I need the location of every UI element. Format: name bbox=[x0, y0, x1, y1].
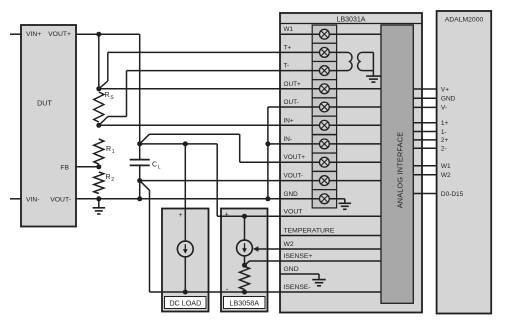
svg-text:T+: T+ bbox=[284, 44, 292, 51]
svg-text:+: + bbox=[224, 211, 228, 218]
svg-text:T-: T- bbox=[284, 63, 290, 70]
svg-text:DC LOAD: DC LOAD bbox=[169, 299, 201, 308]
svg-text:LB3031A: LB3031A bbox=[337, 16, 366, 23]
svg-text:C: C bbox=[152, 162, 157, 169]
svg-text:V+: V+ bbox=[441, 86, 449, 93]
svg-text:LB3058A: LB3058A bbox=[230, 299, 260, 308]
svg-text:W2: W2 bbox=[284, 241, 294, 248]
svg-text:VOUT+: VOUT+ bbox=[48, 31, 71, 38]
svg-text:ISENSE+: ISENSE+ bbox=[284, 253, 313, 260]
svg-text:R: R bbox=[106, 146, 111, 153]
svg-text:D0-D15: D0-D15 bbox=[441, 191, 464, 198]
svg-text:TEMPERATURE: TEMPERATURE bbox=[284, 228, 335, 235]
svg-text:W2: W2 bbox=[441, 172, 451, 179]
svg-text:DUT: DUT bbox=[37, 98, 52, 107]
svg-text:2-: 2- bbox=[441, 146, 447, 153]
svg-text:2+: 2+ bbox=[441, 137, 449, 144]
svg-text:1+: 1+ bbox=[441, 120, 449, 127]
svg-text:R: R bbox=[106, 174, 111, 181]
svg-text:IN-: IN- bbox=[284, 136, 293, 143]
svg-text:L: L bbox=[158, 165, 161, 171]
svg-text:2: 2 bbox=[111, 177, 114, 183]
svg-text:VOUT-: VOUT- bbox=[284, 173, 304, 180]
svg-text:+: + bbox=[178, 212, 182, 219]
svg-text:OUT+: OUT+ bbox=[284, 81, 301, 88]
svg-text:VIN-: VIN- bbox=[26, 197, 40, 204]
svg-text:ADALM2000: ADALM2000 bbox=[445, 17, 484, 24]
svg-text:W1: W1 bbox=[441, 163, 451, 170]
svg-text:IN+: IN+ bbox=[284, 117, 294, 124]
svg-text:W1: W1 bbox=[284, 26, 294, 33]
svg-text:FB: FB bbox=[60, 165, 69, 172]
svg-text:VOUT: VOUT bbox=[284, 208, 303, 215]
svg-text:ISENSE-: ISENSE- bbox=[284, 284, 311, 291]
svg-text:R: R bbox=[105, 92, 110, 99]
svg-text:-: - bbox=[226, 284, 229, 293]
svg-text:ANALOG INTERFACE: ANALOG INTERFACE bbox=[395, 132, 404, 209]
svg-text:OUT-: OUT- bbox=[284, 99, 299, 106]
svg-text:V-: V- bbox=[441, 105, 447, 112]
svg-text:VIN+: VIN+ bbox=[26, 31, 41, 38]
svg-text:VOUT+: VOUT+ bbox=[284, 154, 306, 161]
svg-text:1: 1 bbox=[112, 149, 115, 155]
svg-text:VOUT-: VOUT- bbox=[50, 197, 71, 204]
svg-text:GND: GND bbox=[441, 96, 456, 103]
svg-text:GND: GND bbox=[284, 266, 299, 273]
svg-text:1-: 1- bbox=[441, 129, 447, 136]
svg-text:GND: GND bbox=[284, 191, 299, 198]
